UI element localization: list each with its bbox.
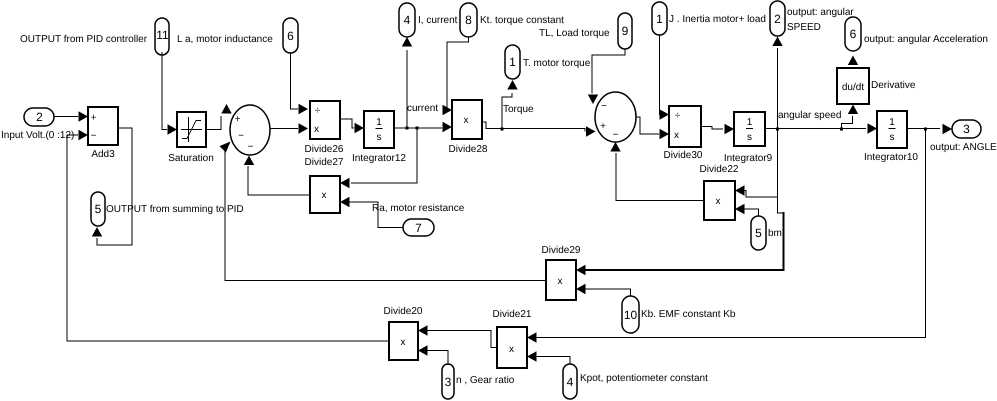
wire Integrator9 to Integrator10 (angular speed line) bbox=[765, 123, 877, 133]
wire port10 Kb to Divide29 input2 bbox=[576, 284, 631, 296]
svg-text:−: − bbox=[248, 142, 254, 153]
svg-text:Torque: Torque bbox=[503, 104, 534, 115]
block Divide20 bbox=[389, 322, 418, 360]
port 6 (output angular Acceleration) bbox=[845, 17, 861, 51]
wire Divide22 out to S2 bottom minus bbox=[610, 142, 704, 201]
wire port4 Kpot to Divide21 input2 bbox=[527, 351, 570, 364]
svg-text:Ra, motor resistance: Ra, motor resistance bbox=[372, 203, 465, 214]
svg-text:output: ANGLE: output: ANGLE bbox=[930, 142, 997, 153]
svg-text:11: 11 bbox=[156, 28, 169, 42]
block Divide30 bbox=[669, 106, 701, 147]
block Divide28 bbox=[452, 100, 482, 139]
svg-text:Add3: Add3 bbox=[91, 149, 115, 160]
svg-text:T. motor torque: T. motor torque bbox=[523, 58, 591, 69]
svg-text:Saturation: Saturation bbox=[168, 153, 214, 164]
svg-text:OUTPUT from PID controller: OUTPUT from PID controller bbox=[20, 34, 148, 45]
port 10 (Kb, EMF constant) bbox=[622, 296, 639, 333]
svg-text:Input Volt.(0 :12): Input Volt.(0 :12) bbox=[1, 130, 74, 141]
svg-text:output: angular Acceleration: output: angular Acceleration bbox=[864, 34, 988, 45]
svg-text:output: angular: output: angular bbox=[787, 7, 854, 18]
wire port1 J to Divide30 divide input bbox=[660, 35, 670, 120]
svg-text:Kt. torque constant: Kt. torque constant bbox=[480, 15, 564, 26]
svg-text:x: x bbox=[464, 115, 469, 126]
block Divide26 bbox=[310, 101, 340, 139]
svg-text:s: s bbox=[890, 132, 895, 143]
svg-text:4: 4 bbox=[567, 375, 574, 389]
svg-text:+: + bbox=[600, 121, 606, 132]
port 2 (output angular SPEED) bbox=[770, 1, 785, 36]
svg-text:Kb. EMF constant Kb: Kb. EMF constant Kb bbox=[641, 309, 736, 320]
block Divide27 (Ra multiply) bbox=[310, 176, 340, 213]
wire port11 to Saturation bbox=[162, 52, 177, 135]
svg-text:Divide22: Divide22 bbox=[700, 164, 739, 175]
svg-text:Divide30: Divide30 bbox=[664, 150, 703, 161]
block Divide29 bbox=[546, 260, 576, 300]
svg-text:6: 6 bbox=[850, 27, 857, 41]
port 3 (output ANGLE) bbox=[952, 120, 981, 138]
svg-text:−: − bbox=[613, 130, 619, 141]
port 7 (Ra, motor resistance) bbox=[403, 219, 434, 236]
sum junction S2 bbox=[595, 92, 636, 142]
svg-text:+: + bbox=[235, 114, 241, 125]
svg-text:Kpot, potentiometer constant: Kpot, potentiometer constant bbox=[580, 373, 708, 384]
wire Divide29 out to S1 minus bbox=[220, 142, 547, 281]
svg-text:3: 3 bbox=[963, 122, 970, 136]
svg-text:OUTPUT from summing to PID: OUTPUT from summing to PID bbox=[106, 204, 244, 215]
svg-text:÷: ÷ bbox=[315, 106, 321, 117]
svg-text:bm: bm bbox=[768, 228, 782, 239]
svg-text:Integrator9: Integrator9 bbox=[724, 153, 773, 164]
wire Divide27 out to S1 bottom minus bbox=[244, 156, 310, 196]
svg-text:1: 1 bbox=[889, 117, 895, 128]
svg-text:x: x bbox=[322, 190, 327, 201]
svg-text:SPEED: SPEED bbox=[787, 22, 821, 33]
wire Saturation to S1 plus bbox=[206, 104, 232, 130]
svg-text:x: x bbox=[314, 124, 319, 135]
svg-text:+: + bbox=[91, 113, 97, 124]
svg-text:s: s bbox=[747, 132, 752, 143]
svg-text:du/dt: du/dt bbox=[842, 82, 864, 93]
port 11 (OUTPUT from PID controller) bbox=[155, 18, 169, 55]
svg-text:s: s bbox=[377, 132, 382, 143]
port 6 L (L a, motor inductance) bbox=[283, 18, 298, 53]
block Derivative (du/dt) bbox=[837, 68, 869, 104]
svg-text:Integrator10: Integrator10 bbox=[864, 152, 918, 163]
svg-text:÷: ÷ bbox=[675, 111, 681, 122]
wire Divide28 out to S2 plus (Torque line) bbox=[482, 122, 596, 137]
svg-text:2: 2 bbox=[774, 12, 781, 26]
block Integrator10 bbox=[877, 111, 907, 148]
block Saturation bbox=[177, 112, 206, 147]
wire feedback angle to Divide21 input1 bbox=[527, 129, 926, 343]
wire port6 to Divide26 divide input bbox=[291, 53, 309, 114]
port 2 (Input Volt) bbox=[24, 108, 54, 126]
wire continuation to Divide29 input1 bbox=[576, 197, 784, 275]
svg-text:6: 6 bbox=[287, 29, 294, 43]
svg-text:x: x bbox=[509, 344, 514, 355]
block Integrator9 bbox=[734, 112, 765, 146]
svg-text:4: 4 bbox=[404, 13, 411, 27]
svg-text:L a, motor inductance: L a, motor inductance bbox=[177, 34, 273, 45]
svg-text:angular speed: angular speed bbox=[778, 110, 841, 121]
svg-text:Derivative: Derivative bbox=[871, 80, 916, 91]
port 5 (bm) bbox=[751, 216, 766, 250]
svg-text:2: 2 bbox=[36, 110, 43, 124]
wire Integrator10 to port3 ANGLE bbox=[907, 124, 952, 134]
wire port5 bm to Divide22 input2 bbox=[735, 204, 759, 216]
wire port9 to S2 top minus bbox=[588, 49, 625, 104]
svg-text:−: − bbox=[91, 131, 97, 142]
wire branch down to Divide22 input1 bbox=[735, 129, 778, 198]
wire S1 out to Divide26 x input bbox=[270, 123, 308, 133]
wire Divide26 to Integrator12 bbox=[340, 119, 364, 133]
wire S2 out to Divide30 x input bbox=[636, 117, 669, 139]
block Divide22 bbox=[704, 181, 735, 220]
svg-text:1: 1 bbox=[747, 117, 753, 128]
svg-text:−: − bbox=[601, 101, 607, 112]
svg-text:5: 5 bbox=[755, 226, 762, 240]
wire port3 gear to Divide20 input2 bbox=[418, 345, 448, 364]
svg-text:1: 1 bbox=[376, 117, 382, 128]
svg-text:Divide28: Divide28 bbox=[449, 144, 488, 155]
port 4 (I, current) bbox=[399, 3, 415, 37]
wire Derivative to port6 acceleration bbox=[848, 56, 858, 69]
port 9 (TL, Load torque) bbox=[618, 13, 632, 49]
port 1 (J, Inertia motor+load) bbox=[652, 2, 667, 35]
wire Integrator12 to Divide28 (current line) bbox=[394, 122, 452, 132]
wire Divide21 out to Divide20 input1 bbox=[418, 325, 497, 347]
svg-text:Divide26: Divide26 bbox=[305, 144, 344, 155]
svg-text:TL, Load torque: TL, Load torque bbox=[539, 28, 610, 39]
wire branch torque to port1 bbox=[502, 80, 518, 129]
wire branch to port2 SPEED bbox=[772, 37, 782, 129]
wire branch current to Divide27 input1 bbox=[340, 128, 417, 188]
block Add3 bbox=[88, 107, 118, 145]
svg-text:J . Inertia motor+ load: J . Inertia motor+ load bbox=[669, 14, 766, 25]
block Integrator12 bbox=[364, 111, 394, 148]
svg-text:9: 9 bbox=[622, 24, 629, 38]
wire Add3 out to port5 bbox=[92, 128, 132, 245]
svg-text:10: 10 bbox=[624, 308, 638, 322]
svg-text:x: x bbox=[401, 337, 406, 348]
port 3 (n, Gear ratio) bbox=[442, 364, 454, 399]
wire feedback Divide20 to Add3 minus bbox=[67, 130, 389, 341]
svg-text:Divide29: Divide29 bbox=[542, 245, 581, 256]
svg-text:7: 7 bbox=[415, 221, 422, 235]
svg-text:I, current: I, current bbox=[418, 15, 458, 26]
sum junction S1 bbox=[230, 105, 270, 155]
svg-text:x: x bbox=[674, 130, 679, 141]
wire branch up to Derivative bbox=[842, 105, 859, 129]
wire branch to port4 bbox=[402, 37, 412, 128]
svg-text:Divide20: Divide20 bbox=[384, 306, 423, 317]
port 1 (T, motor torque) bbox=[505, 45, 520, 79]
svg-text:8: 8 bbox=[465, 13, 472, 27]
port 4 (Kpot) bbox=[563, 364, 577, 399]
svg-text:current: current bbox=[407, 103, 438, 114]
svg-text:x: x bbox=[716, 196, 721, 207]
wire port7 to Divide27 input2 bbox=[340, 197, 403, 228]
wire Divide30 to Integrator9 bbox=[701, 124, 734, 134]
svg-text:Divide21: Divide21 bbox=[493, 309, 532, 320]
svg-text:3: 3 bbox=[445, 375, 452, 389]
wire port2 to Add3 plus bbox=[54, 111, 88, 121]
svg-text:n , Gear ratio: n , Gear ratio bbox=[456, 375, 515, 386]
svg-text:1: 1 bbox=[509, 55, 516, 69]
wire port8 to Divide28 input1 bbox=[443, 37, 469, 115]
port 5 (OUTPUT from summing to PID) bbox=[91, 192, 105, 226]
svg-text:x: x bbox=[558, 276, 563, 287]
block Divide21 bbox=[497, 327, 527, 368]
svg-text:−: − bbox=[238, 131, 244, 142]
svg-text:1: 1 bbox=[656, 12, 663, 26]
svg-text:Divide27: Divide27 bbox=[305, 157, 344, 168]
svg-text:Integrator12: Integrator12 bbox=[352, 153, 406, 164]
svg-text:5: 5 bbox=[95, 202, 102, 216]
port 8 (Kt, torque constant) bbox=[460, 3, 477, 37]
